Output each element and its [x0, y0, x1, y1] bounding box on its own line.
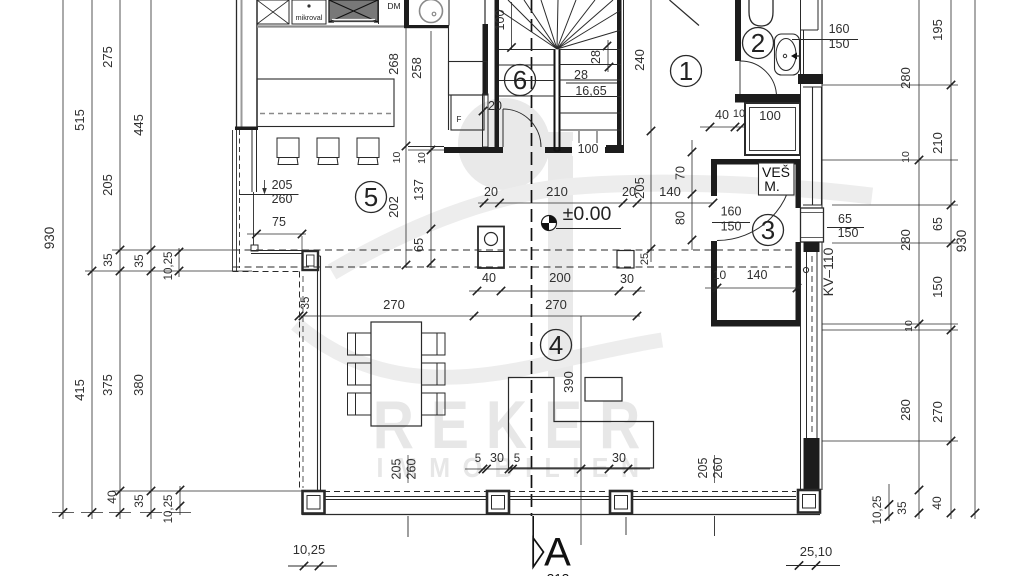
svg-text:DM: DM [387, 1, 400, 11]
svg-text:28: 28 [589, 50, 603, 64]
svg-text:150: 150 [721, 220, 742, 234]
svg-text:M.: M. [764, 178, 780, 194]
svg-text:930: 930 [954, 230, 969, 253]
svg-text:65: 65 [411, 238, 426, 252]
svg-text:160: 160 [721, 205, 742, 219]
svg-text:75: 75 [272, 215, 286, 229]
svg-text:2: 2 [751, 28, 765, 58]
svg-text:313: 313 [547, 572, 570, 576]
svg-text:445: 445 [131, 114, 146, 136]
svg-text:100: 100 [759, 108, 781, 123]
svg-text:25: 25 [639, 253, 651, 265]
svg-text:10: 10 [900, 151, 912, 163]
svg-text:10: 10 [733, 108, 745, 120]
svg-text:20: 20 [484, 185, 498, 199]
svg-text:5: 5 [364, 182, 378, 212]
svg-text:280: 280 [898, 67, 913, 89]
svg-text:4: 4 [549, 330, 563, 360]
svg-text:1: 1 [679, 56, 693, 86]
svg-text:25,10: 25,10 [800, 544, 833, 559]
svg-text:260: 260 [405, 459, 419, 480]
svg-text:140: 140 [659, 184, 681, 199]
svg-text:280: 280 [898, 399, 913, 421]
svg-text:210: 210 [930, 132, 945, 154]
svg-text:100: 100 [578, 142, 599, 156]
svg-text:±0.00: ±0.00 [563, 203, 612, 225]
svg-text:280: 280 [898, 229, 913, 251]
svg-text:10: 10 [903, 320, 915, 332]
svg-text:65: 65 [838, 212, 852, 226]
svg-text:65: 65 [931, 217, 945, 231]
svg-text:270: 270 [545, 297, 567, 312]
svg-text:930: 930 [42, 227, 57, 250]
svg-text:205: 205 [272, 178, 293, 192]
svg-text:35: 35 [300, 297, 312, 310]
svg-text:240: 240 [632, 49, 647, 71]
svg-text:10,25: 10,25 [872, 496, 884, 525]
svg-text:35: 35 [895, 501, 909, 515]
svg-text:35: 35 [101, 253, 115, 267]
svg-text:35: 35 [132, 254, 146, 268]
svg-text:200: 200 [549, 270, 571, 285]
svg-text:137: 137 [411, 179, 426, 201]
svg-text:40: 40 [930, 496, 944, 510]
svg-text:80: 80 [674, 211, 688, 225]
svg-text:210: 210 [546, 184, 568, 199]
svg-text:10: 10 [713, 268, 727, 282]
svg-text:6: 6 [513, 65, 527, 95]
svg-text:515: 515 [72, 109, 87, 131]
svg-text:5: 5 [514, 453, 520, 465]
svg-text:10: 10 [391, 152, 403, 164]
svg-text:205: 205 [696, 458, 710, 479]
svg-text:150: 150 [838, 226, 859, 240]
svg-text:275: 275 [100, 46, 115, 68]
svg-text:16,65: 16,65 [575, 84, 606, 98]
svg-text:mikroval: mikroval [296, 13, 323, 22]
svg-text:268: 268 [386, 53, 401, 75]
svg-text:150: 150 [930, 276, 945, 298]
svg-text:10,25: 10,25 [163, 495, 175, 524]
svg-text:20: 20 [622, 185, 636, 199]
svg-text:A: A [544, 531, 571, 575]
svg-text:10,25: 10,25 [163, 252, 175, 281]
svg-text:100: 100 [493, 10, 507, 31]
svg-text:30: 30 [612, 451, 626, 465]
svg-text:380: 380 [131, 374, 146, 396]
svg-text:390: 390 [561, 371, 576, 393]
svg-text:195: 195 [930, 19, 945, 41]
svg-text:28: 28 [574, 68, 588, 82]
svg-text:40: 40 [105, 490, 119, 504]
svg-text:160: 160 [829, 22, 850, 36]
svg-text:10,25: 10,25 [293, 542, 326, 557]
svg-text:40: 40 [482, 271, 496, 285]
svg-text:10: 10 [416, 152, 428, 164]
svg-text:270: 270 [930, 401, 945, 423]
svg-text:205: 205 [390, 459, 404, 480]
svg-text:258: 258 [409, 57, 424, 79]
svg-text:375: 375 [100, 374, 115, 396]
svg-text:205: 205 [100, 174, 115, 196]
svg-text:30: 30 [490, 451, 504, 465]
svg-text:40: 40 [715, 108, 729, 122]
svg-text:KV–110: KV–110 [820, 247, 836, 296]
svg-text:270: 270 [383, 297, 405, 312]
svg-text:415: 415 [72, 379, 87, 401]
svg-text:3: 3 [761, 215, 775, 245]
svg-text:F: F [457, 115, 462, 124]
svg-text:202: 202 [386, 196, 401, 218]
svg-text:70: 70 [674, 166, 688, 180]
svg-text:20: 20 [488, 99, 502, 113]
svg-text:35: 35 [132, 494, 146, 508]
svg-text:30: 30 [620, 272, 634, 286]
svg-text:260: 260 [711, 458, 725, 479]
svg-text:140: 140 [747, 268, 768, 282]
svg-text:5: 5 [475, 453, 481, 465]
